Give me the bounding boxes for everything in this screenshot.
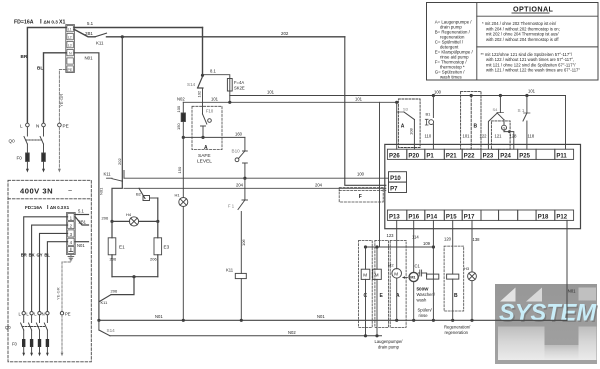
svg-text:BR: BR [21, 54, 28, 59]
svg-text:rinse: rinse [419, 313, 429, 318]
node dot G out [508, 130, 511, 133]
switch Q0 poles (400V) [21, 315, 48, 339]
dashed box G (detergent option) [491, 121, 510, 149]
svg-text:P1: P1 [426, 153, 434, 159]
svg-text:P11: P11 [556, 153, 567, 159]
wire coil to N01 bus [240, 279, 242, 321]
wire 100 left corner up [123, 171, 125, 179]
svg-text:YE-GR: YE-GR [59, 94, 64, 107]
wire ends with arrows (400V) [22, 347, 49, 356]
drain pump motor M2 [392, 269, 402, 321]
svg-text:8.1: 8.1 [210, 69, 216, 74]
svg-text:Laugenpumpe/: Laugenpumpe/ [375, 339, 404, 344]
capacitor C1 [418, 270, 426, 277]
terminal labels (400V) [19, 312, 71, 317]
svg-text:E: E [380, 293, 384, 299]
paragraph separator [477, 46, 598, 48]
safety thermostat F1 [238, 200, 248, 273]
dispenser E solenoid [373, 247, 382, 336]
dashed box A SAFE LEVEL [192, 106, 222, 149]
svg-text:PE: PE [65, 312, 71, 317]
wire P16 down to wash motor [413, 220, 415, 272]
svg-text:2B1: 2B1 [85, 31, 93, 36]
svg-text:G: G [503, 127, 506, 131]
switch K11 contact 3 [100, 295, 112, 302]
svg-text:150: 150 [176, 123, 181, 130]
svg-text:S14: S14 [187, 82, 196, 87]
svg-text:N01: N01 [155, 314, 163, 319]
svg-text:X1: X1 [59, 20, 65, 26]
wire GY cell3 (400V) [40, 233, 68, 311]
node dot G branch [499, 94, 502, 97]
svg-text:S 1: S 1 [518, 108, 525, 113]
node dot end of N02 line [395, 101, 398, 104]
svg-text:P25: P25 [519, 153, 530, 159]
svg-text:Q0: Q0 [5, 325, 11, 330]
pressure switch B10 [235, 151, 247, 178]
wire P14 down to N01 [432, 247, 434, 320]
svg-text:K11: K11 [96, 41, 104, 46]
svg-text:150: 150 [177, 166, 182, 173]
node dot E on N02 [375, 334, 378, 337]
svg-text:wash times: wash times [440, 74, 463, 79]
svg-text:500W: 500W [417, 287, 430, 292]
wire B10 drop from 160 line [244, 137, 246, 151]
dashed box A2 (drain pump) [390, 240, 406, 327]
svg-text:202: 202 [117, 158, 122, 165]
svg-text:P17: P17 [464, 214, 475, 220]
terminal block X1 (mains) [66, 25, 75, 73]
component on P14 wire [427, 274, 439, 279]
switch K11 on 202 line [95, 33, 107, 37]
svg-text:204: 204 [236, 182, 244, 187]
fuse F0 on N [42, 153, 46, 161]
svg-text:SYSTEM: SYSTEM [499, 300, 597, 327]
terminal circles (400V) [22, 312, 64, 315]
svg-text:F10: F10 [206, 109, 214, 114]
svg-text:M1: M1 [410, 275, 416, 280]
Q0 coupling dashed [26, 139, 42, 141]
svg-text:P10: P10 [390, 176, 401, 182]
svg-text:A: A [401, 124, 405, 130]
switch F10 float [201, 114, 212, 137]
svg-text:X1: X1 [64, 205, 70, 210]
svg-text:BL: BL [44, 253, 50, 258]
svg-text:102: 102 [197, 90, 202, 97]
svg-text:BL: BL [37, 66, 43, 71]
svg-text:LEVEL: LEVEL [197, 158, 212, 164]
svg-text:108: 108 [409, 128, 414, 135]
svg-text:P7: P7 [390, 186, 398, 192]
wire S1 drop [526, 96, 528, 114]
wire S14 down into safe level box [202, 88, 204, 114]
wire BR cell1 (400V) [24, 217, 68, 312]
bottom row labels [389, 214, 568, 220]
svg-text:P20: P20 [408, 153, 419, 159]
svg-text:M: M [375, 273, 379, 278]
svg-text:206: 206 [111, 289, 118, 294]
svg-text:E1: E1 [119, 245, 125, 250]
dashed box F [339, 188, 383, 202]
node dot 183/137 [182, 136, 185, 139]
wash pump motor M1 [409, 272, 418, 320]
svg-text:L: L [34, 312, 37, 317]
PE symbol in cell 5 [69, 248, 73, 252]
terminal block X1 (400V) [67, 212, 76, 259]
connector P10 [389, 172, 407, 182]
switch S14 [198, 77, 204, 89]
svg-text:N01: N01 [568, 289, 576, 294]
svg-text:160: 160 [235, 131, 243, 136]
svg-text:with 121 / without 122 the was: with 121 / without 122 the wash times ar… [486, 68, 580, 73]
svg-text:B: B [474, 124, 478, 130]
watermark triangle 2 [526, 288, 542, 302]
svg-text:F=4A: F=4A [234, 80, 244, 85]
wire 2B1 diagonal from L1 [74, 30, 95, 37]
svg-text:K11: K11 [226, 268, 234, 273]
node dot above S14 [201, 74, 204, 77]
svg-text:N01: N01 [98, 187, 103, 195]
svg-text:FD=16A: FD=16A [14, 20, 34, 26]
node dot P14 corner [432, 245, 435, 248]
feed line from P14 to dispensers [366, 246, 434, 248]
fuse F=4A SK2E [227, 79, 232, 92]
wire BR: L1 to left drop [27, 28, 65, 124]
svg-text:with 202 / without 204 thermos: with 202 / without 204 thermostop is off [486, 37, 559, 42]
wire N01 stub (400V) [75, 241, 88, 243]
dashed optional wire to P7 [339, 190, 386, 192]
svg-text:P14: P14 [426, 214, 437, 220]
svg-text:SK2E: SK2E [234, 86, 245, 91]
Q0 coupling dashed (400V) [22, 326, 46, 328]
svg-text:H4: H4 [126, 212, 132, 217]
watermark bottom-right block [579, 327, 597, 361]
svg-text:A: A [204, 145, 208, 151]
wire N02/101 horizontal at y=102.3 [183, 101, 396, 103]
svg-text:L: L [26, 312, 29, 317]
wire F1 drop [244, 178, 246, 200]
svg-text:K11: K11 [104, 172, 112, 177]
svg-text:400V 3N: 400V 3N [20, 187, 53, 196]
wire P13 down to drain motor [396, 220, 398, 268]
OPTIONAL underline [512, 12, 549, 14]
svg-text:N02: N02 [177, 96, 185, 101]
svg-text:H3: H3 [464, 266, 470, 271]
svg-text:~: ~ [68, 188, 72, 195]
svg-text:L1: L1 [68, 27, 72, 31]
svg-text:206: 206 [102, 215, 109, 220]
OPTIONAL legend box [427, 3, 599, 81]
svg-text:GY: GY [37, 253, 43, 258]
wire B1 drop [432, 96, 434, 118]
svg-text:M: M [394, 271, 398, 276]
wire 122 to P23 [488, 113, 497, 149]
svg-text:BK: BK [29, 253, 35, 258]
wire 202 drop to P7 [345, 37, 386, 186]
svg-text:101: 101 [355, 96, 363, 101]
svg-text:E3: E3 [164, 245, 170, 250]
svg-text:P24: P24 [500, 153, 511, 159]
svg-text:101: 101 [528, 89, 536, 94]
svg-text:Regeneration/: Regeneration/ [444, 324, 471, 329]
legend column divider [476, 3, 478, 81]
svg-text:128: 128 [510, 134, 518, 139]
svg-text:drain pump: drain pump [378, 345, 400, 350]
svg-text:1: 1 [70, 215, 73, 220]
watermark bottom-middle block [545, 345, 579, 360]
PE ground symbol below block [68, 255, 74, 260]
svg-text:114: 114 [412, 235, 419, 240]
wire BL: N to left drop [44, 53, 66, 124]
wire N01 from N terminal [74, 53, 99, 321]
svg-text:Waschen/: Waschen/ [417, 292, 436, 297]
label 500W wash [417, 287, 436, 303]
svg-text:L: L [19, 312, 22, 317]
svg-text:5.1: 5.1 [78, 209, 84, 214]
wire P17 down [471, 220, 473, 271]
svg-text:N: N [36, 123, 39, 128]
svg-text:100: 100 [176, 105, 181, 112]
svg-text:ΔN 0.3: ΔN 0.3 [44, 20, 59, 25]
svg-text:M2: M2 [388, 263, 394, 268]
wire P15 down [452, 220, 454, 274]
rotation arrow [402, 276, 408, 279]
node dot S1 branch [525, 94, 528, 97]
svg-text:C1: C1 [415, 263, 421, 268]
label Laugenpumpe drain pump [375, 339, 404, 350]
connector bottom row [387, 210, 573, 220]
svg-text:OPTIONAL: OPTIONAL [513, 5, 554, 14]
svg-text:I: I [47, 205, 49, 211]
svg-text:121: 121 [495, 134, 503, 139]
wire 100 line to P10 [124, 177, 389, 179]
svg-text:SAFE: SAFE [198, 153, 211, 159]
svg-text:H1: H1 [175, 193, 181, 198]
node dot B1 branch [432, 94, 435, 97]
wire into P22 dashed [470, 96, 472, 150]
connector P7 [389, 182, 407, 192]
svg-text:206: 206 [110, 257, 117, 262]
wire PE below terminal dashed [58, 127, 61, 173]
svg-text:L: L [20, 123, 23, 128]
svg-text:Q0: Q0 [9, 139, 16, 144]
svg-text:100: 100 [434, 90, 442, 95]
svg-text:Spülen/: Spülen/ [418, 308, 433, 313]
svg-text:P21: P21 [446, 153, 457, 159]
black fuse on 183 line [181, 113, 185, 122]
svg-text:120: 120 [444, 237, 452, 242]
wire x=183 vertical from N02 line down to N01 bus [182, 102, 184, 320]
watermark top-right square [579, 288, 597, 301]
svg-text:N02: N02 [288, 330, 296, 335]
svg-text:S14: S14 [107, 328, 116, 333]
node dot B10 out [243, 177, 246, 180]
N01 bus dots [97, 319, 473, 322]
svg-text:101: 101 [463, 134, 471, 139]
header separator [477, 15, 598, 17]
switch S3 in box A [397, 112, 415, 149]
svg-text:118: 118 [528, 134, 535, 139]
label Spuelen rinse [418, 308, 433, 318]
svg-text:B: B [454, 293, 458, 299]
switch S4 [497, 113, 504, 120]
node dot heater return [132, 275, 135, 278]
svg-text:N: N [42, 312, 45, 317]
svg-text:N: N [69, 51, 72, 55]
label FD=16A IdN0.3 X1 [14, 20, 65, 26]
dashed box A (drain pump option) [398, 99, 420, 148]
wire BL cell4 (400V) [47, 242, 67, 312]
wire K11 out down-left to heater node [112, 181, 122, 221]
svg-text:N01: N01 [317, 314, 325, 319]
terminal N circle [42, 123, 46, 127]
svg-text:S3: S3 [403, 107, 409, 112]
wire PE dashed (400V) [62, 255, 71, 312]
node dot safe-level out [201, 136, 204, 139]
dashed box 400V 3N [8, 180, 91, 361]
wire 5.1 drop to S14 [202, 28, 204, 76]
wire into P26 [396, 102, 398, 149]
N02 bus [110, 335, 382, 337]
dashed box B2 (regeneration) [444, 246, 464, 311]
dashed box C (detergent) [359, 240, 373, 327]
wire L below fuse with arrow [26, 161, 29, 172]
dispenser G circle [502, 120, 507, 132]
dashed box E (rinse aid) [375, 240, 389, 327]
svg-text:4: 4 [70, 240, 73, 245]
relay coil K11 [235, 273, 246, 278]
svg-text:N01: N01 [77, 243, 85, 248]
heater E3 [154, 221, 162, 276]
watermark triangle 1 [500, 288, 516, 302]
svg-text:206: 206 [150, 257, 157, 262]
switch Q0 pole N [40, 127, 43, 153]
svg-text:F0: F0 [17, 156, 23, 161]
wire 5.1: L1 to right [74, 27, 202, 29]
dashed box B (regeneration option) [461, 91, 481, 149]
svg-text:F0: F0 [12, 342, 18, 347]
node dot C on N02 [364, 334, 367, 337]
label SAFE LEVEL [197, 153, 212, 164]
wire 202 vertical branch down [121, 37, 123, 181]
svg-text:PE: PE [68, 68, 73, 72]
OPTIONAL header [435, 5, 581, 80]
wire heater return to K11 contact [111, 277, 134, 295]
wire P12 down through watermark to N01 [566, 220, 568, 320]
connector top row [387, 149, 573, 159]
wire 101 corner down to P11 [565, 96, 567, 150]
label FD=16A IdN0.3 X1 (400V) [25, 205, 70, 211]
svg-text:2B1: 2B1 [79, 219, 87, 224]
wire P14 stub [432, 220, 434, 247]
junction 202 branch dot [121, 35, 124, 38]
watermark bottom-left block [498, 327, 545, 361]
svg-text:2: 2 [70, 224, 73, 229]
wire 8.1 branch to fuse [203, 75, 230, 79]
controller board box [385, 144, 581, 228]
svg-text:FD=16A: FD=16A [25, 205, 43, 210]
svg-text:138: 138 [473, 237, 481, 242]
heater return wires [112, 276, 158, 278]
svg-text:M: M [363, 273, 367, 278]
title separator dashed [8, 198, 91, 200]
wire PE end dashed (400V) [61, 315, 64, 356]
heater E1 [108, 221, 116, 276]
svg-text:3: 3 [70, 232, 73, 237]
svg-text:S4: S4 [493, 107, 499, 112]
node dot heater right [156, 220, 159, 223]
node dot box B branch [470, 94, 473, 97]
svg-text:123: 123 [387, 233, 395, 238]
switch S1 [523, 113, 530, 149]
node dot E feed [375, 245, 378, 248]
svg-text:N01: N01 [85, 56, 94, 61]
title 400V 3N [20, 187, 72, 196]
svg-text:BR: BR [21, 253, 27, 258]
terminal L circle [26, 123, 30, 127]
svg-text:106: 106 [241, 239, 246, 246]
svg-text:B1: B1 [426, 112, 432, 117]
svg-text:ΔN 0.3: ΔN 0.3 [50, 205, 64, 210]
label Regeneration regeneration [444, 324, 471, 335]
svg-text:P12: P12 [556, 214, 567, 220]
switch S14 contact 2 [99, 330, 110, 336]
dispenser C solenoid [361, 247, 370, 336]
wire YE-GR: PE dashed drop [59, 70, 65, 124]
regeneration solenoid [447, 274, 459, 279]
svg-text:P15: P15 [446, 214, 457, 220]
fuses F0 (400V) [22, 339, 49, 347]
watermark logo background [495, 284, 598, 364]
wire N below fuse with arrow [42, 161, 45, 172]
svg-text:P16: P16 [408, 214, 419, 220]
svg-text:100: 100 [357, 172, 365, 177]
wire N01 below bus to S14 [98, 320, 100, 330]
wire 160 horizontal [183, 136, 245, 138]
wire 2B1 stub diagonal (400V) [75, 217, 88, 225]
svg-text:P23: P23 [483, 153, 494, 159]
node dot C feed [364, 245, 367, 248]
svg-text:101: 101 [267, 90, 275, 95]
svg-text:B2: B2 [136, 191, 142, 196]
wire 101 horizontal long line [230, 95, 566, 97]
svg-text:P26: P26 [389, 153, 400, 159]
svg-text:122: 122 [480, 134, 488, 139]
wire solenoid to N01 [452, 279, 454, 320]
lamp H4 [112, 217, 158, 226]
svg-text:P13: P13 [389, 214, 400, 220]
wire 204 long line to P7 [124, 187, 386, 189]
lamp H1 [179, 198, 188, 207]
svg-text:5.1: 5.1 [87, 21, 94, 26]
wire 5.1 stub (400V) [75, 214, 88, 216]
label F=4A SK2E [234, 80, 245, 91]
svg-text:204: 204 [315, 182, 323, 187]
thermostat B1 [425, 119, 433, 149]
svg-text:regeneration: regeneration [445, 330, 469, 335]
thermostat B2 [139, 188, 158, 221]
svg-text:B10: B10 [232, 149, 241, 154]
switch K11 contact 2 [107, 178, 123, 181]
fuse F0 on L [26, 153, 30, 161]
svg-text:L3: L3 [68, 43, 72, 47]
wire 101 from fuse: down, corner right [229, 91, 231, 102]
svg-text:202: 202 [281, 31, 289, 36]
svg-text:F 1: F 1 [228, 204, 235, 209]
terminal PE circle [58, 123, 62, 127]
svg-text:110: 110 [425, 134, 432, 139]
switch Q0 pole L [24, 127, 27, 153]
